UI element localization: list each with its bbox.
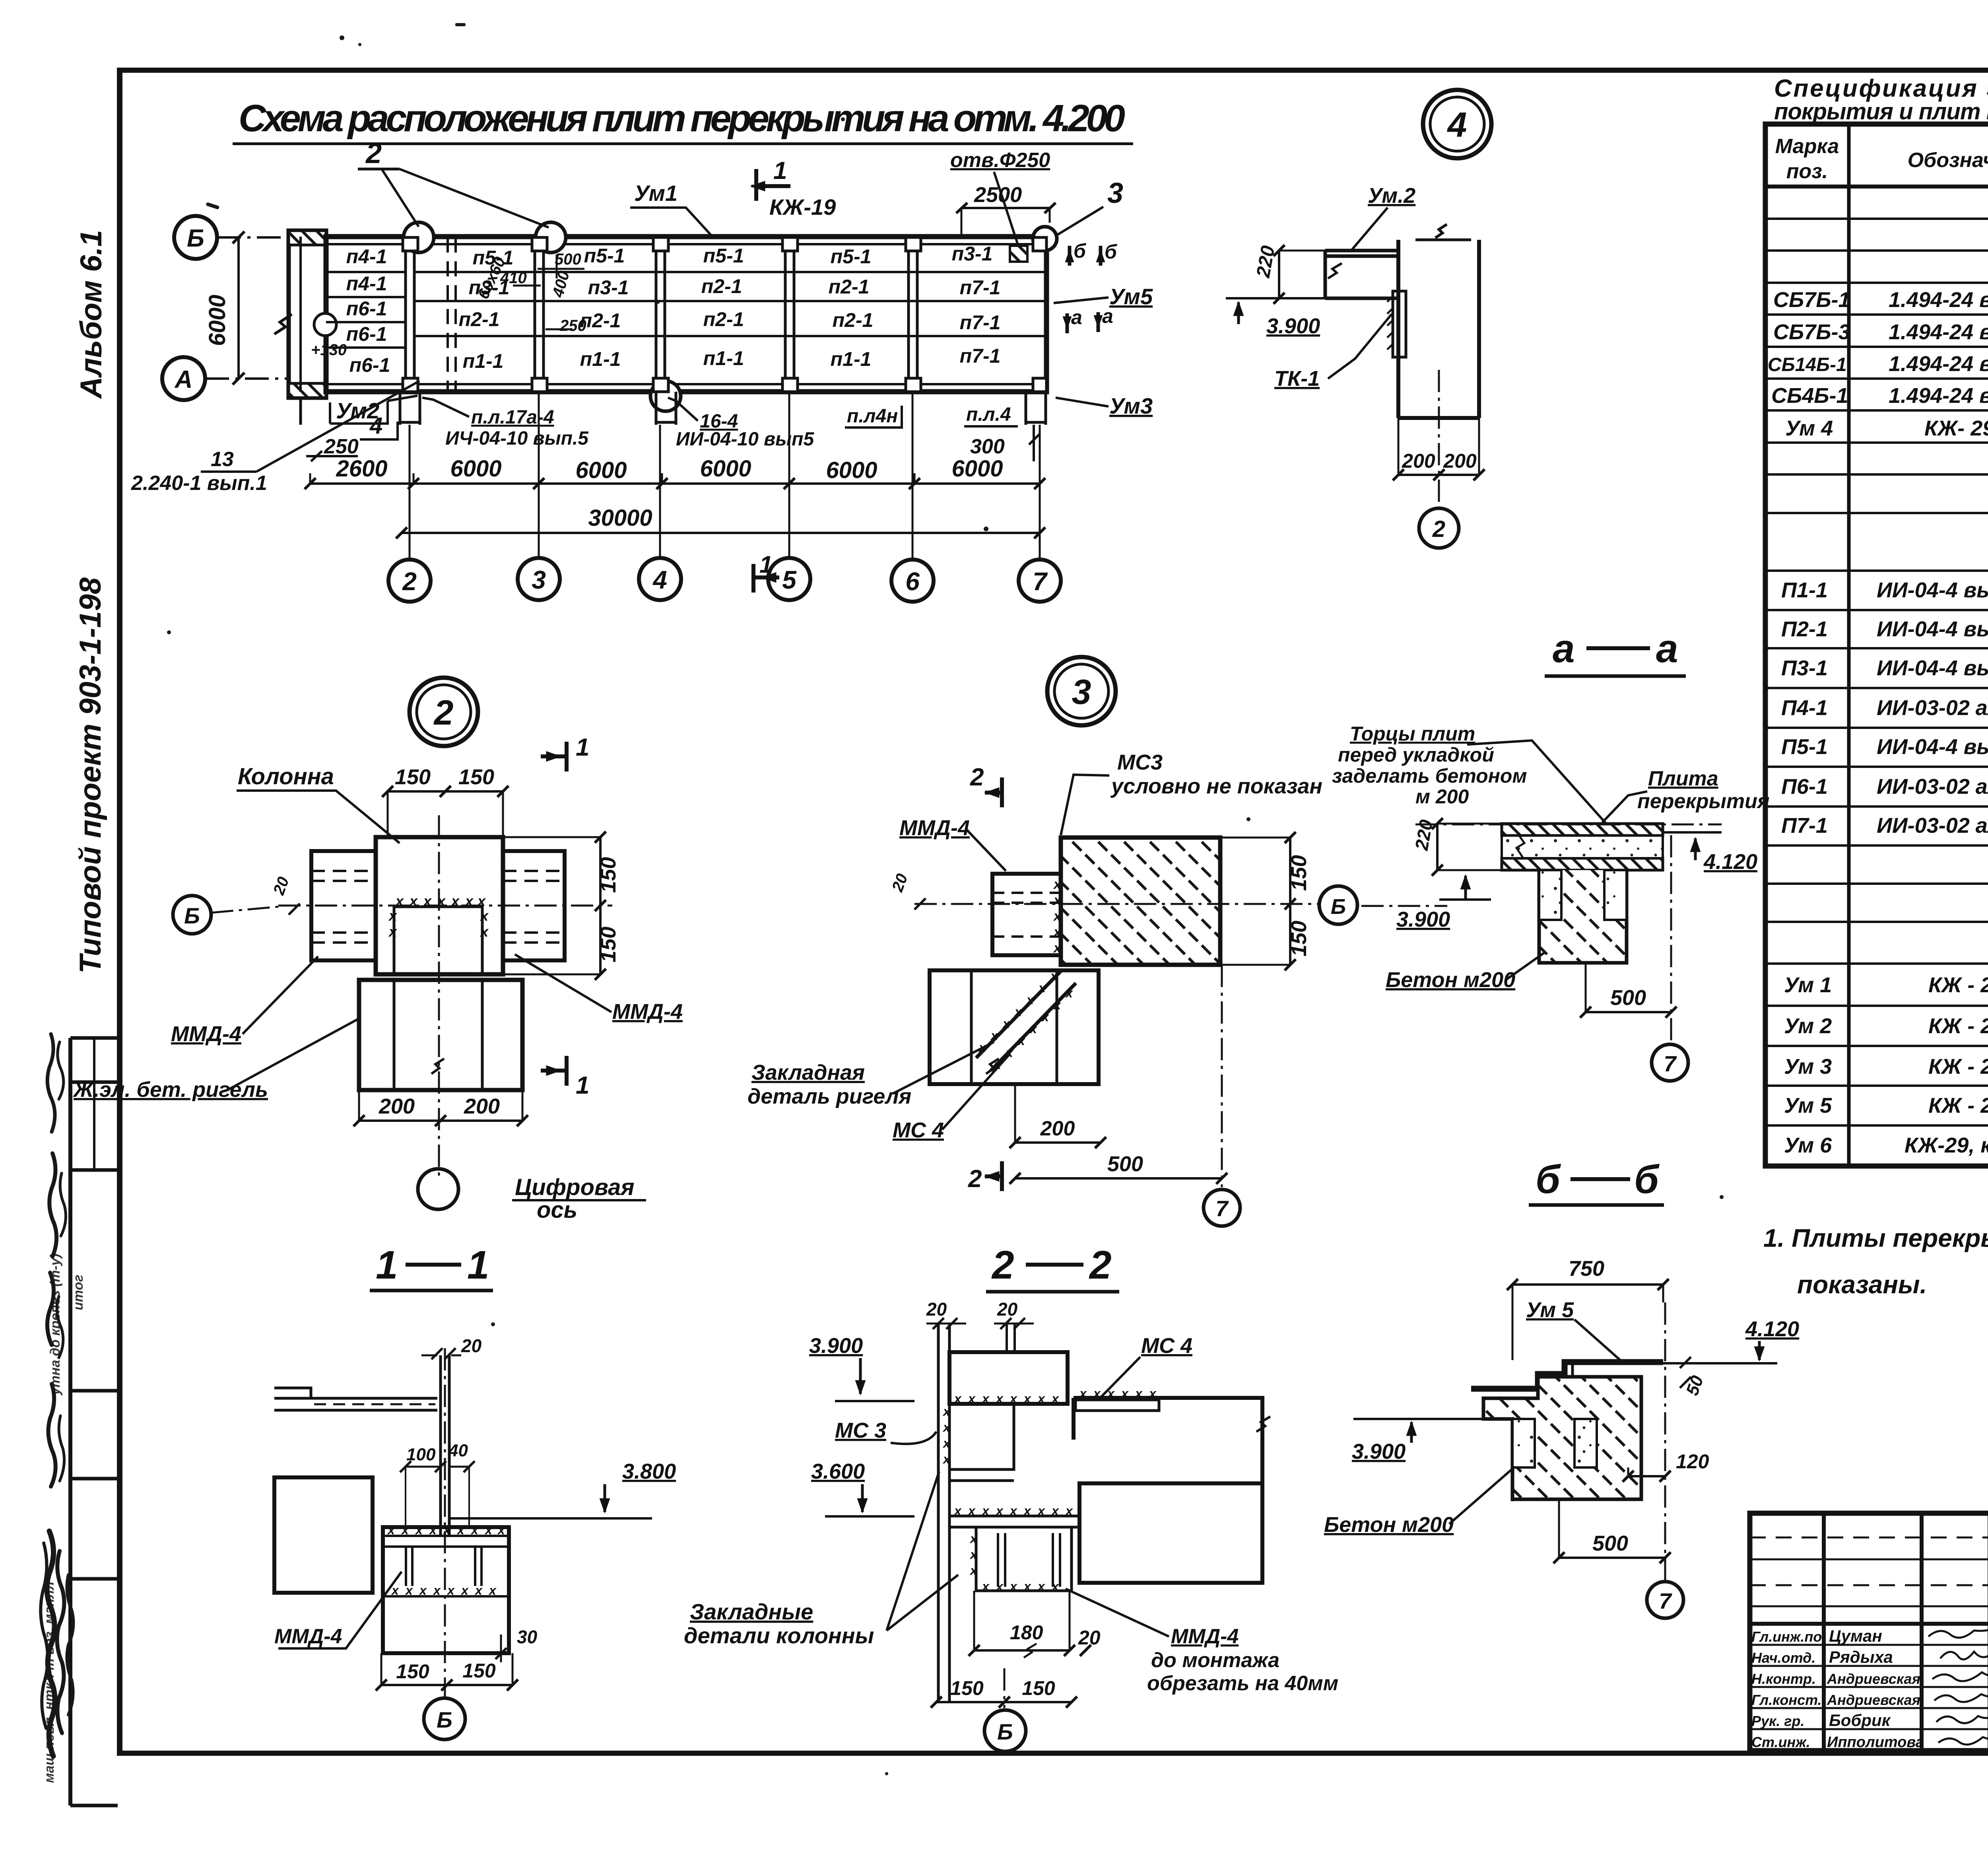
- dim 300 right: [970, 425, 1039, 461]
- svg-text:ИИ-04-4 вып.19: ИИ-04-4 вып.19: [1877, 735, 1988, 759]
- svg-text:2.240-1 вып.1: 2.240-1 вып.1: [131, 472, 267, 495]
- 2-2 label МС4: [1101, 1334, 1192, 1397]
- svg-text:Ум1: Ум1: [634, 181, 678, 206]
- svg-text:П5-1: П5-1: [1781, 735, 1828, 759]
- monolithic strip Ум1 dashed: [448, 237, 456, 392]
- svg-text:x: x: [942, 1452, 951, 1466]
- title block signatures: [1928, 1620, 1988, 1745]
- a-a elevation 4.120: [1663, 832, 1757, 874]
- node2 pedestal: [359, 980, 522, 1090]
- svg-text:x: x: [1053, 893, 1062, 908]
- svg-text:x: x: [474, 1583, 483, 1598]
- svg-text:40: 40: [448, 1441, 468, 1460]
- svg-text:30000: 30000: [588, 505, 652, 531]
- axis circle 3: [518, 558, 560, 600]
- svg-text:2: 2: [968, 1165, 982, 1193]
- label Ум3 right: [1056, 393, 1153, 418]
- svg-text:6000: 6000: [204, 295, 230, 346]
- svg-text:x: x: [460, 1583, 469, 1598]
- axis circle 7: [1019, 560, 1061, 602]
- svg-text:1. Плиты перекрытия в узлах 2: 1. Плиты перекрытия в узлах 2.3 условно …: [1763, 1224, 1988, 1252]
- svg-text:п6-1: п6-1: [349, 354, 390, 376]
- node4 column: [1398, 224, 1479, 418]
- axis circle 4: [639, 558, 681, 600]
- svg-text:показаны.: показаны.: [1797, 1270, 1927, 1299]
- svg-text:2600: 2600: [336, 456, 387, 482]
- svg-text:x: x: [953, 1504, 962, 1518]
- note 13 / 2.240-1 вып.1: [131, 381, 419, 495]
- svg-text:x: x: [1002, 1016, 1010, 1031]
- svg-text:3.800: 3.800: [622, 1460, 676, 1483]
- svg-text:КЖ-29, км - 5: КЖ-29, км - 5: [1905, 1133, 1988, 1157]
- title block grid: [1750, 1513, 1988, 1751]
- svg-text:ИИ-04-4 вып.19: ИИ-04-4 вып.19: [1877, 656, 1988, 680]
- svg-text:Обозначение: Обозначение: [1908, 149, 1988, 172]
- a-a axis Б circle: [1319, 886, 1447, 924]
- node3 label МС3 условно не показан: [1061, 750, 1322, 835]
- svg-text:Нач.отд.: Нач.отд.: [1751, 1650, 1815, 1666]
- svg-text:до монтажа: до монтажа: [1151, 1649, 1279, 1672]
- 1-1 elevation 3.600: [811, 1460, 914, 1516]
- a-a axis dash-dot: [1415, 824, 1722, 826]
- svg-text:обрезать на 40мм: обрезать на 40мм: [1147, 1672, 1338, 1695]
- slab labels bay3: [580, 245, 629, 370]
- axis circle 6: [891, 560, 934, 602]
- node3 circle 7: [1204, 965, 1240, 1226]
- svg-text:Закладная: Закладная: [751, 1061, 865, 1084]
- plan node circle at axis7/Б: [1033, 227, 1057, 251]
- svg-text:2: 2: [970, 764, 984, 791]
- spec row Ум2: [1784, 1014, 1988, 1038]
- svg-text:x: x: [450, 893, 460, 909]
- svg-text:П6-1: П6-1: [1781, 775, 1828, 799]
- axis А circle: [162, 357, 289, 400]
- svg-text:x: x: [1037, 1579, 1045, 1594]
- section marks б right of plan: [1070, 240, 1118, 266]
- svg-text:3.900: 3.900: [1352, 1440, 1406, 1463]
- svg-text:x: x: [969, 1531, 978, 1546]
- svg-text:условно не показан: условно не показан: [1110, 774, 1322, 798]
- svg-text:x: x: [1134, 1386, 1143, 1401]
- svg-text:КЖ-19: КЖ-19: [769, 194, 836, 220]
- svg-text:б: б: [1074, 240, 1087, 262]
- svg-text:п5-1: п5-1: [831, 245, 872, 268]
- svg-text:Андриевская: Андриевская: [1827, 1671, 1920, 1687]
- svg-text:3.900: 3.900: [1266, 314, 1320, 338]
- svg-text:п5-1: п5-1: [703, 245, 744, 267]
- svg-text:200: 200: [464, 1094, 500, 1118]
- section flag 1 near axis5: [753, 551, 779, 593]
- svg-text:Марка: Марка: [1775, 135, 1839, 158]
- svg-text:+130: +130: [311, 341, 347, 359]
- left edge scan artifacts band: [41, 1034, 73, 1756]
- spec row П3-1: [1781, 656, 1988, 680]
- svg-text:Рядыха: Рядыха: [1829, 1648, 1893, 1666]
- svg-text:4: 4: [369, 413, 382, 439]
- node3 section flag 2 top: [970, 764, 1002, 807]
- section a-a title: [1545, 626, 1686, 676]
- spec row Ум1: [1784, 973, 1988, 997]
- svg-text:п3-1: п3-1: [588, 276, 629, 299]
- svg-text:Рук. гр.: Рук. гр.: [1751, 1713, 1805, 1729]
- svg-text:x: x: [967, 1504, 976, 1518]
- svg-text:ММД-4: ММД-4: [171, 1022, 241, 1046]
- svg-text:7: 7: [1033, 567, 1048, 596]
- svg-text:ИИ-04-4 вып.19: ИИ-04-4 вып.19: [1877, 578, 1988, 602]
- scan specks top area: [167, 23, 1724, 1775]
- svg-text:20: 20: [926, 1299, 947, 1320]
- svg-text:3.900: 3.900: [1396, 908, 1450, 931]
- svg-text:Ум 2: Ум 2: [1784, 1014, 1832, 1038]
- svg-text:Б: Б: [187, 225, 204, 252]
- 1-1 node box: [383, 1523, 509, 1653]
- svg-text:x: x: [1017, 1034, 1025, 1048]
- node3 diagonal embed strip: [976, 969, 1076, 1072]
- axis circle 5: [768, 558, 810, 600]
- svg-text:Н.контр.: Н.контр.: [1751, 1671, 1816, 1687]
- label Ж.эл.бет.ригель: [72, 1018, 360, 1102]
- svg-text:КЖ - 28: КЖ - 28: [1928, 1014, 1988, 1038]
- svg-text:1.494-24 вып.1: 1.494-24 вып.1: [1889, 320, 1988, 344]
- svg-text:КЖ- 29: КЖ- 29: [1924, 416, 1988, 440]
- svg-text:150: 150: [458, 765, 494, 789]
- svg-text:п7-1: п7-1: [960, 345, 1001, 367]
- note 1 below table: [1763, 1224, 1988, 1299]
- axis column lines on plan: [406, 237, 917, 392]
- label ММД-4 left of node2: [171, 956, 318, 1046]
- section 2-2 title: [986, 1243, 1119, 1292]
- б-б circle 7: [1647, 1302, 1683, 1618]
- spec row П7-1: [1781, 814, 1988, 838]
- node2 title circle: [410, 678, 478, 746]
- svg-text:ИИ-04-10 вып5: ИИ-04-10 вып5: [676, 429, 814, 450]
- svg-text:150: 150: [462, 1660, 496, 1682]
- plan node circle at axis3/Б: [536, 222, 566, 253]
- svg-text:Б: Б: [184, 903, 200, 928]
- svg-text:x: x: [1051, 1392, 1059, 1406]
- svg-text:x: x: [480, 908, 489, 924]
- svg-text:750: 750: [1569, 1257, 1604, 1281]
- svg-text:п2-1: п2-1: [701, 275, 742, 297]
- svg-text:СБ14Б-1: СБ14Б-1: [1768, 354, 1847, 375]
- svg-text:x: x: [484, 1523, 493, 1537]
- plan break mark on wall: [274, 314, 292, 334]
- svg-text:Ум3: Ум3: [1109, 393, 1153, 418]
- svg-text:СБ4Б-1: СБ4Б-1: [1771, 384, 1848, 408]
- б-б column pockets: [1512, 1419, 1597, 1501]
- svg-text:КЖ - 27: КЖ - 27: [1928, 973, 1988, 997]
- a-a elevation 3.900: [1396, 876, 1491, 931]
- svg-text:п.л4н: п.л4н: [847, 406, 898, 427]
- svg-text:Ст.инж.: Ст.инж.: [1751, 1734, 1810, 1750]
- svg-text:x: x: [1120, 1386, 1129, 1401]
- plan node circle on wall: [314, 313, 336, 336]
- svg-text:x: x: [1023, 1579, 1031, 1594]
- plan left wall: [289, 231, 326, 398]
- 1-1 dims 100 40: [400, 1441, 475, 1527]
- svg-text:x: x: [1050, 969, 1058, 983]
- label Ум1: [630, 181, 712, 236]
- 2-2 axis circle Б: [984, 1668, 1026, 1751]
- svg-text:x: x: [395, 893, 404, 909]
- slab labels bay2: [459, 247, 514, 372]
- spec row СБ4Б-1: [1771, 384, 1988, 408]
- svg-text:x: x: [1009, 1579, 1017, 1594]
- node4 label ТК-1: [1274, 314, 1392, 391]
- slab labels bay1: [346, 245, 390, 376]
- svg-text:п5-1: п5-1: [584, 245, 625, 267]
- label ММД-4 right of node2: [515, 954, 683, 1024]
- svg-text:Б: Б: [997, 1719, 1013, 1744]
- left margin small table: [70, 1038, 118, 1806]
- svg-text:300: 300: [970, 435, 1005, 458]
- svg-text:ММД-4: ММД-4: [899, 816, 970, 840]
- svg-text:500: 500: [1592, 1531, 1628, 1555]
- 1-1 axis line vertical: [444, 1348, 446, 1698]
- 1-1 label ММД-4: [274, 1572, 402, 1648]
- svg-text:x: x: [1079, 1386, 1087, 1401]
- svg-text:п6-1: п6-1: [346, 323, 387, 345]
- svg-text:x: x: [1037, 1504, 1045, 1518]
- node3 hatched slab: [1061, 838, 1220, 965]
- svg-text:x: x: [1051, 1504, 1059, 1518]
- svg-text:x: x: [464, 893, 474, 909]
- svg-text:150: 150: [1287, 921, 1311, 956]
- svg-text:1: 1: [773, 157, 787, 185]
- svg-text:СБ7Б-1: СБ7Б-1: [1773, 288, 1850, 312]
- dimension row 2600/6000x5: [305, 456, 1045, 489]
- svg-text:x: x: [443, 1523, 451, 1537]
- svg-text:6000: 6000: [951, 456, 1003, 482]
- svg-text:120: 120: [1676, 1450, 1709, 1473]
- svg-text:ММД-4: ММД-4: [274, 1625, 342, 1648]
- svg-text:x: x: [969, 1547, 978, 1562]
- 1-1 column lines: [441, 1355, 449, 1536]
- svg-text:Типовой проект 903-1-198: Типовой проект 903-1-198: [74, 577, 107, 974]
- spec row П5-1: [1781, 735, 1988, 759]
- svg-text:п2-1: п2-1: [703, 308, 744, 330]
- svg-text:а: а: [1102, 305, 1113, 327]
- svg-text:а: а: [1553, 626, 1575, 671]
- spec table grid: [1765, 124, 1988, 1166]
- svg-text:2: 2: [1432, 516, 1445, 542]
- slab labels bay5: [829, 245, 874, 370]
- svg-text:6: 6: [905, 567, 920, 596]
- svg-text:Бетон м200: Бетон м200: [1324, 1513, 1454, 1537]
- svg-text:ТК-1: ТК-1: [1274, 367, 1320, 391]
- svg-text:x: x: [1026, 993, 1034, 1007]
- svg-text:x: x: [1037, 1392, 1045, 1406]
- svg-text:ИИ-04-4 вып.19: ИИ-04-4 вып.19: [1877, 617, 1988, 641]
- left margin archive scribbles: [42, 1254, 86, 1783]
- spec row П1-1: [1781, 578, 1988, 602]
- svg-text:Ум.2: Ум.2: [1368, 184, 1415, 208]
- svg-text:20: 20: [461, 1335, 482, 1356]
- slab labels bay6: [952, 243, 1001, 367]
- svg-text:П4-1: П4-1: [1781, 696, 1828, 720]
- svg-text:13: 13: [211, 448, 234, 471]
- svg-text:200: 200: [1443, 450, 1477, 472]
- svg-text:п7-1: п7-1: [960, 276, 1001, 299]
- svg-text:П7-1: П7-1: [1781, 814, 1828, 838]
- svg-text:500: 500: [555, 251, 581, 268]
- svg-text:x: x: [1065, 986, 1073, 1000]
- node2 dim 150 150 top: [382, 765, 509, 837]
- vertical dim 6000 between А and Б: [204, 231, 245, 385]
- callout 2 label and leaders: [358, 138, 549, 227]
- svg-text:x: x: [409, 893, 418, 909]
- 2-2 top-left slab block: [949, 1352, 1068, 1406]
- a-a column with concrete pockets: [1539, 870, 1627, 963]
- svg-text:1: 1: [376, 1243, 398, 1287]
- svg-text:150: 150: [596, 927, 620, 962]
- svg-text:Цифровая: Цифровая: [515, 1174, 635, 1200]
- б-б dim 50: [1680, 1357, 1707, 1398]
- svg-text:3: 3: [1107, 177, 1123, 209]
- svg-text:Ж.эл. бет. ригель: Ж.эл. бет. ригель: [72, 1078, 268, 1102]
- б-б slab left line: [1353, 1418, 1483, 1420]
- svg-text:20: 20: [997, 1299, 1018, 1320]
- node2 цифровая ось circle: [418, 1169, 646, 1223]
- svg-text:Схема расположения плит перекр: Схема расположения плит перекрытия на от…: [239, 97, 1125, 140]
- spec row Ум6: [1784, 1133, 1988, 1157]
- svg-text:6000: 6000: [700, 456, 751, 482]
- svg-text:ИИ-03-02 ал.51: ИИ-03-02 ал.51: [1877, 775, 1988, 799]
- svg-text:покрытия и плит перекрытия на: покрытия и плит перекрытия на отм.4.200 …: [1774, 99, 1988, 124]
- svg-text:200: 200: [1040, 1117, 1075, 1140]
- svg-text:п3-1: п3-1: [952, 243, 993, 265]
- node4 label Ум.2: [1352, 184, 1415, 250]
- slab row lines bays2-6: [414, 272, 1046, 336]
- node2 Б circle left: [173, 896, 278, 934]
- svg-text:Ум 3: Ум 3: [1784, 1055, 1832, 1079]
- svg-text:x: x: [995, 1504, 1004, 1518]
- svg-text:x: x: [388, 908, 398, 924]
- svg-text:2: 2: [365, 138, 382, 169]
- 1-1 elevation 3.900 right: [809, 1334, 914, 1401]
- svg-text:4.120: 4.120: [1745, 1317, 1799, 1341]
- svg-text:x: x: [1029, 1022, 1037, 1036]
- node3 label МС 4: [893, 1054, 1010, 1142]
- svg-text:деталь ригеля: деталь ригеля: [747, 1084, 911, 1108]
- svg-text:1: 1: [576, 734, 589, 761]
- svg-text:5: 5: [782, 566, 797, 594]
- section б-б title: [1529, 1157, 1664, 1205]
- node2 inner core with weld marks: [388, 893, 489, 974]
- svg-text:2: 2: [991, 1243, 1014, 1287]
- svg-text:Закладные: Закладные: [690, 1599, 813, 1624]
- svg-text:4: 4: [652, 566, 667, 594]
- svg-text:П2-1: П2-1: [1781, 617, 1828, 641]
- svg-text:п1-1: п1-1: [831, 348, 872, 370]
- svg-text:x: x: [401, 1523, 409, 1537]
- column squares on axes: [403, 237, 1046, 392]
- svg-text:Ум 5: Ум 5: [1784, 1094, 1832, 1118]
- svg-text:x: x: [1093, 1386, 1101, 1401]
- svg-text:МС 4: МС 4: [1141, 1334, 1192, 1358]
- svg-text:П1-1: П1-1: [1781, 578, 1828, 602]
- б-б label Бетон М200: [1324, 1467, 1515, 1537]
- svg-text:1: 1: [759, 551, 773, 578]
- label Колонна: [237, 764, 400, 843]
- svg-text:Ум5: Ум5: [1109, 284, 1153, 309]
- svg-text:x: x: [1014, 1005, 1022, 1019]
- node3 left beam: [992, 874, 1062, 956]
- svg-text:180: 180: [1010, 1621, 1043, 1644]
- a-a note Торцы плит перед укладкой заделать бетоном М200: [1332, 723, 1618, 837]
- dimension 30000: [396, 505, 1045, 538]
- label Закладные детали колонны: [684, 1471, 958, 1648]
- svg-text:150: 150: [950, 1677, 984, 1699]
- slab labels bay4: [701, 245, 744, 369]
- node3 dim 20 left: [889, 871, 926, 910]
- 1-1 label МС 3: [835, 1419, 936, 1444]
- svg-text:x: x: [1051, 1579, 1059, 1594]
- svg-text:МС3: МС3: [1117, 750, 1163, 774]
- svg-text:Гл.конст.: Гл.конст.: [1751, 1692, 1822, 1708]
- a-a dim 500: [1580, 963, 1677, 1018]
- 1-1 dim 150 150: [376, 1653, 518, 1691]
- 2-2 left wall lines: [938, 1324, 949, 1702]
- svg-text:п1-1: п1-1: [463, 350, 504, 372]
- svg-text:детали колонны: детали колонны: [684, 1623, 874, 1648]
- axis Б circle: [174, 216, 286, 259]
- svg-text:п1-1: п1-1: [703, 347, 744, 369]
- svg-text:x: x: [942, 1436, 951, 1450]
- node4 bracket ТК-1: [1387, 291, 1406, 357]
- a-a label Плита перекрытия: [1602, 767, 1770, 822]
- svg-text:1: 1: [467, 1243, 489, 1287]
- svg-text:Бетон м200: Бетон м200: [1386, 968, 1515, 992]
- a-a circle 7: [1652, 835, 1688, 1081]
- svg-text:2: 2: [433, 693, 454, 732]
- title block personnel names: [1827, 1627, 1924, 1751]
- 1-1 dim 20 top: [421, 1335, 482, 1359]
- svg-text:x: x: [981, 1504, 990, 1518]
- svg-text:x: x: [1041, 1010, 1049, 1024]
- node2 small dim 20 left: [270, 875, 300, 915]
- svg-text:x: x: [388, 923, 398, 940]
- node4 axis circle 2: [1419, 370, 1459, 548]
- svg-text:x: x: [1148, 1386, 1157, 1401]
- svg-text:отв.Ф250: отв.Ф250: [950, 149, 1050, 172]
- svg-text:250: 250: [559, 317, 586, 334]
- svg-text:6000: 6000: [826, 457, 877, 483]
- svg-text:итог: итог: [71, 1275, 86, 1310]
- spec table column headers: [1775, 135, 1988, 183]
- svg-text:Ум 5: Ум 5: [1526, 1298, 1574, 1322]
- svg-text:ММД-4: ММД-4: [1171, 1625, 1239, 1648]
- svg-text:150: 150: [1022, 1677, 1055, 1699]
- 2-2 embed box upper: [942, 1404, 1014, 1481]
- svg-text:б: б: [1536, 1157, 1561, 1202]
- svg-text:x: x: [1038, 981, 1046, 995]
- small 4 mark: [360, 413, 398, 439]
- svg-text:x: x: [497, 1523, 505, 1537]
- dim 2500 top right: [956, 183, 1056, 237]
- б-б label Ум5: [1526, 1298, 1620, 1360]
- svg-text:КЖ - 29: КЖ - 29: [1928, 1094, 1988, 1118]
- svg-text:x: x: [1053, 998, 1061, 1012]
- frame bottom border: [117, 1751, 1988, 1756]
- svg-text:4.120: 4.120: [1703, 850, 1757, 874]
- wall stubs below plan: [301, 392, 1046, 425]
- node4 elevation 3.900: [1226, 298, 1325, 338]
- node3 dim 500: [1010, 1152, 1227, 1184]
- 1-1 left slab: [274, 1388, 437, 1410]
- svg-text:МС 4: МС 4: [893, 1118, 944, 1142]
- svg-text:x: x: [429, 1523, 437, 1537]
